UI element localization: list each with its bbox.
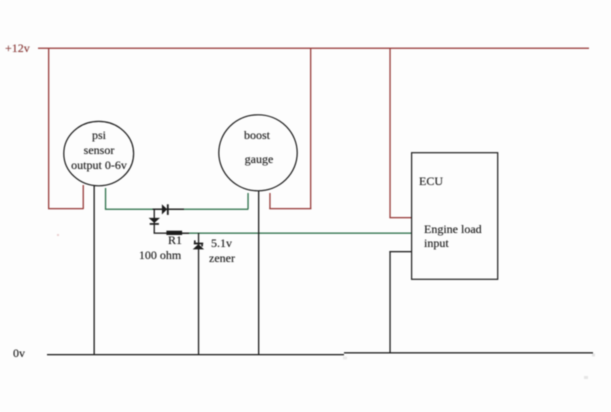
label 0v	[13, 347, 25, 359]
label R1	[168, 234, 182, 246]
zener diode D3 right tick	[201, 244, 203, 246]
+12v rail wire	[38, 48, 589, 49]
boost gauge circle	[219, 115, 297, 191]
faint artifact speck	[343, 357, 347, 360]
boost gauge label line 1	[244, 129, 270, 141]
0v rail wire right segment	[344, 352, 593, 353]
zener diode D3 cathode bar	[194, 243, 203, 245]
zener diode D3 triangle	[193, 244, 204, 249]
wire ECU ground horizontal	[389, 251, 412, 252]
label 5.1v	[211, 237, 232, 249]
label zener	[209, 252, 235, 264]
0v rail wire left segment	[47, 354, 344, 355]
wire +12v horizontal under boost gauge	[269, 208, 311, 209]
wire resistor output stub	[182, 233, 189, 234]
wire branch down to diode D2	[154, 209, 155, 233]
label Engine load input	[424, 222, 482, 250]
diode D1 triangle	[162, 204, 167, 214]
wire +12v drop to ECU	[389, 48, 390, 218]
wire boost gauge ground	[258, 191, 259, 355]
wire +12v into ECU	[389, 217, 412, 218]
faint artifact speck	[584, 376, 588, 379]
resistor R1 body	[166, 231, 182, 235]
wire green riser to boost gauge	[247, 193, 248, 209]
wire +12v riser to boost gauge	[269, 193, 270, 209]
wire green sensor output drop	[105, 188, 106, 209]
wire green to ECU engine load input	[182, 233, 412, 234]
label 100 ohm	[139, 249, 181, 261]
diode D1 wire overlay	[153, 209, 184, 210]
wire +12v horizontal under psi sensor	[48, 208, 84, 209]
diode D2 triangle	[149, 218, 160, 223]
faint artifact speck	[592, 354, 595, 357]
label ECU	[419, 175, 443, 187]
psi sensor label	[71, 128, 127, 173]
wire psi sensor ground	[94, 186, 95, 355]
wire +12v riser to psi sensor	[83, 185, 84, 209]
boost gauge label line 2	[244, 153, 273, 165]
wire +12v drop to boost gauge	[310, 48, 311, 209]
label +12v	[5, 42, 30, 54]
ECU box U1	[412, 153, 498, 280]
psi sensor circle	[64, 121, 134, 185]
wire ECU ground drop	[389, 251, 390, 353]
zener diode D3 left tick	[194, 240, 196, 243]
diode D2 cathode bar	[150, 223, 159, 225]
diode D1 cathode bar	[167, 204, 169, 215]
faint artifact speck	[57, 234, 59, 236]
wire +12v drop to psi sensor	[48, 48, 49, 209]
wire zener ground	[198, 233, 199, 355]
wire branch to resistor R1	[154, 233, 167, 234]
wire green signal horizontal	[105, 209, 249, 210]
